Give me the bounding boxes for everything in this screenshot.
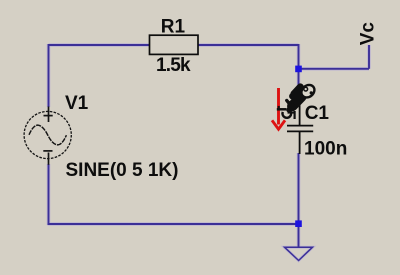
svg-text:100n: 100n (304, 138, 347, 159)
ground symbol (285, 247, 313, 260)
wire top horizontal (49, 44, 299, 46)
wire right vertical lower (halo) (297, 153, 301, 224)
svg-text:V1: V1 (65, 93, 89, 114)
wire right vertical lower (298, 153, 300, 224)
node junction top (295, 66, 302, 73)
wire Vc stub vertical (halo) (367, 45, 371, 69)
wire ground stub (298, 224, 300, 247)
wire bottom horizontal (48, 223, 299, 225)
svg-text:R1: R1 (161, 17, 186, 38)
svg-text:Vc: Vc (357, 22, 378, 46)
svg-text:SINE(0 5 1K): SINE(0 5 1K) (66, 160, 179, 181)
wire ground stub (halo) (297, 224, 301, 247)
wire left vertical upper (halo) (47, 44, 51, 107)
current probe clamp-meter icon (277, 82, 317, 119)
ground symbol (halo) (285, 247, 313, 260)
wire left vertical lower (halo) (47, 164, 51, 225)
wire left vertical lower (48, 164, 50, 225)
wire Vc stub horizontal (299, 68, 370, 70)
wire Vc stub horizontal (halo) (299, 67, 370, 71)
svg-text:1.5k: 1.5k (156, 55, 191, 76)
node junction bottom (295, 220, 302, 227)
svg-text:C1: C1 (305, 103, 330, 124)
wire bottom horizontal (halo) (48, 222, 299, 226)
wire right vertical upper (halo) (297, 44, 301, 98)
resistor R1 (150, 35, 199, 54)
wire top horizontal (halo) (49, 43, 299, 47)
capacitor C1 (287, 98, 313, 154)
voltage source V1 (24, 107, 71, 165)
wire Vc stub vertical (368, 45, 370, 69)
wire left vertical upper (48, 44, 50, 107)
current probe red arrow (272, 88, 285, 129)
wire right vertical upper (298, 44, 300, 98)
